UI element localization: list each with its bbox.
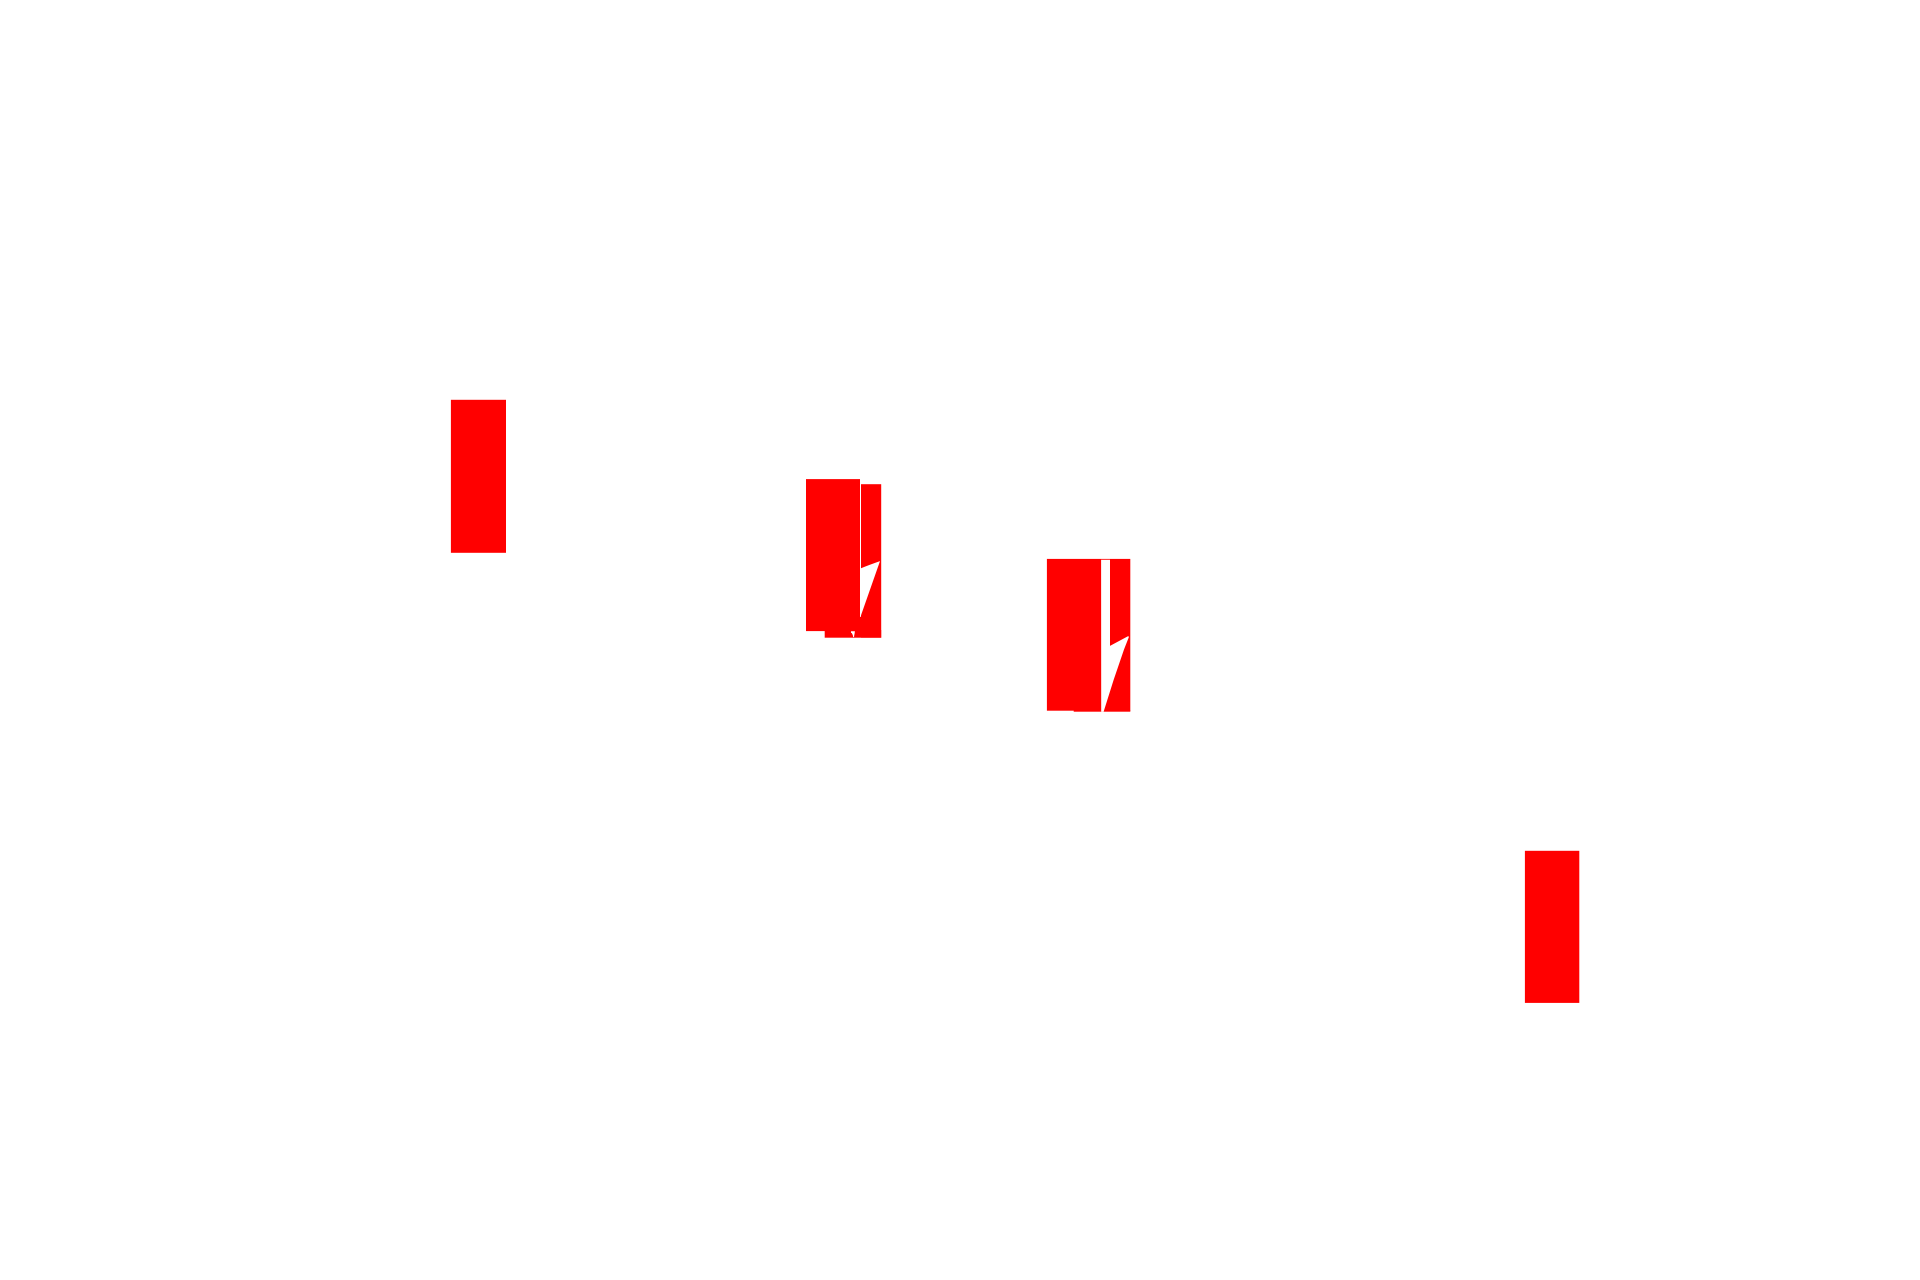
- red bar 2 left block: [806, 479, 860, 631]
- white slot and wedge cutout in bar 3: [1101, 560, 1129, 712]
- red bar 2 right block: [861, 484, 881, 638]
- white wedge cutout in bar 2: [861, 561, 881, 617]
- red bar 4: [1525, 851, 1579, 1003]
- red bar 1: [451, 400, 506, 553]
- red bar 3 bottom strip: [1074, 710, 1131, 712]
- red bar 3 main block: [1047, 559, 1130, 711]
- white caret notch cutout in bar 2: [851, 631, 855, 637]
- red bar 2 lower band: [825, 630, 882, 638]
- red bar 2 gap filler below hairline: [860, 617, 861, 632]
